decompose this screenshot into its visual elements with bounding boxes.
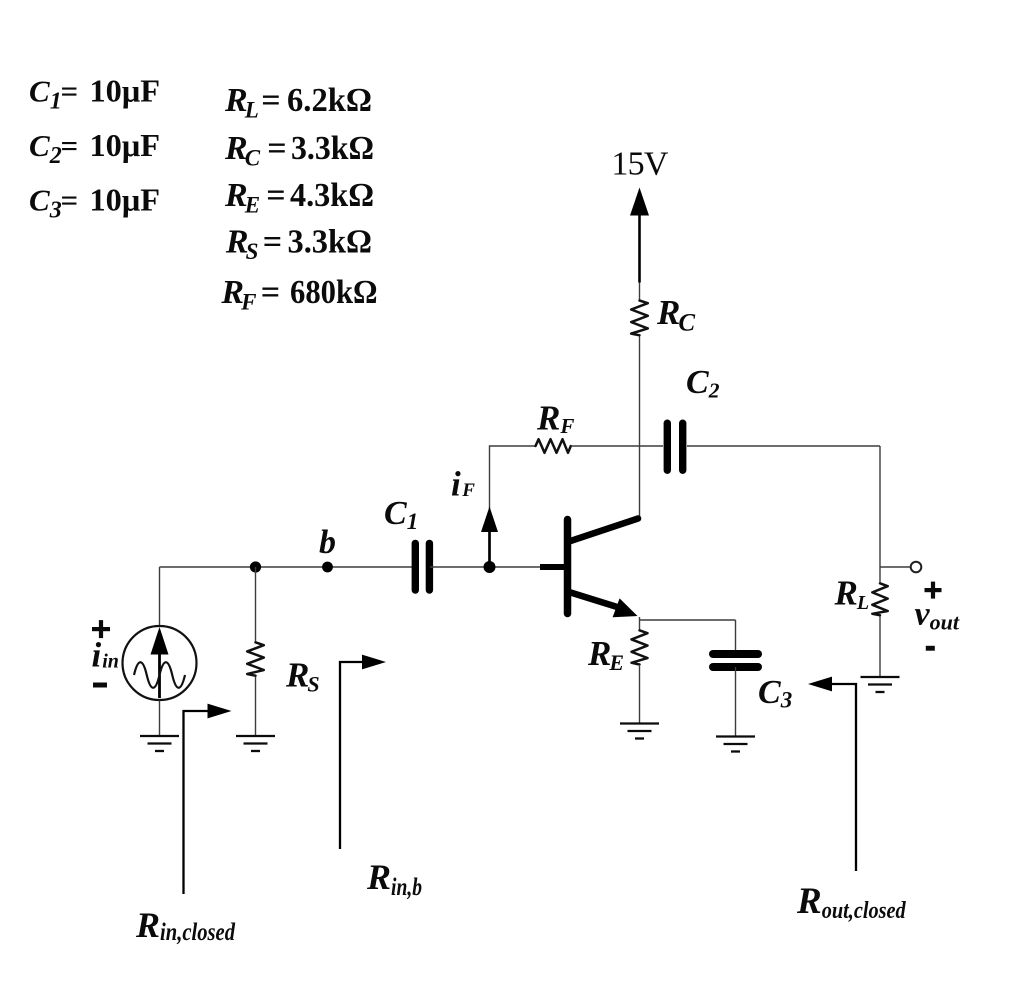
wire C1 to base — [430, 566, 540, 568]
svg-text:10μF: 10μF — [90, 74, 161, 109]
svg-text:3.3kΩ: 3.3kΩ — [288, 224, 373, 261]
ground under C3 — [716, 737, 755, 752]
svg-text:=: = — [261, 274, 280, 311]
node b — [322, 562, 333, 573]
current source iin circle — [123, 626, 197, 700]
svg-text:=: = — [61, 183, 79, 218]
resistor RL — [872, 583, 887, 615]
right output rail down — [879, 446, 881, 582]
ground under RE — [620, 724, 659, 739]
plus sign vout — [925, 588, 942, 592]
svg-text:6.2kΩ: 6.2kΩ — [287, 82, 372, 119]
transistor Q1 base bar — [564, 520, 572, 614]
wire base to current source — [159, 567, 161, 626]
svg-text:b: b — [319, 524, 336, 561]
pointer arrow Rin,closed — [184, 711, 209, 894]
svg-text:3.3kΩ: 3.3kΩ — [291, 130, 374, 167]
wire supply rail to RC — [639, 283, 641, 301]
emitter node wire down — [639, 617, 641, 629]
wire RS to ground — [255, 677, 257, 736]
svg-text:=: = — [267, 130, 286, 167]
transistor emitter lead with arrow — [569, 592, 622, 609]
minus sign iin — [93, 683, 107, 688]
output terminal — [911, 562, 922, 573]
wire RF to collector rail — [571, 445, 663, 447]
svg-text:=: = — [263, 224, 282, 261]
svg-text:680kΩ: 680kΩ — [290, 274, 378, 311]
pointer arrow Rout,closed — [832, 684, 856, 871]
output stub wire — [880, 566, 910, 568]
svg-text:=: = — [61, 128, 79, 163]
svg-text:10μF: 10μF — [90, 183, 161, 218]
wire source to ground — [159, 701, 161, 737]
base lead thick — [540, 564, 564, 570]
node at base / iF junction — [484, 561, 496, 573]
resistor RC — [631, 301, 648, 336]
wire RE to ground — [639, 666, 641, 724]
minus sign vout — [926, 646, 935, 651]
capacitor C1 — [412, 543, 419, 590]
RS branch wire — [255, 567, 257, 641]
transistor collector lead — [569, 519, 638, 542]
power supply arrow to 15V — [638, 213, 641, 283]
resistor RF — [536, 439, 571, 453]
wire C2 to right rail — [687, 445, 880, 447]
wire RL to ground — [879, 616, 881, 677]
capacitor C3 — [713, 650, 758, 658]
svg-text:=: = — [266, 177, 285, 214]
resistor RS — [247, 642, 264, 675]
svg-text:15V: 15V — [611, 146, 668, 183]
node at RS junction — [250, 561, 261, 572]
ground under RL — [861, 677, 900, 692]
wire RC to collector node — [639, 337, 641, 519]
emitter wire to C3 — [640, 619, 736, 621]
ground under RS — [236, 736, 275, 751]
capacitor C2 — [664, 423, 671, 470]
feedback wire from base node up — [490, 446, 536, 567]
pointer arrow Rin,b — [340, 662, 362, 849]
svg-text:4.3kΩ: 4.3kΩ — [290, 177, 374, 214]
ground under iin — [140, 736, 179, 751]
svg-text:=: = — [261, 82, 280, 119]
svg-text:=: = — [61, 74, 79, 109]
iF current arrow — [488, 531, 491, 565]
base wire — [160, 566, 414, 568]
current source sine — [134, 662, 185, 688]
current source arrow — [158, 652, 161, 698]
resistor RE — [632, 630, 648, 664]
svg-text:10μF: 10μF — [90, 128, 161, 163]
plus sign iin — [92, 627, 110, 631]
wire C3 to ground — [735, 667, 737, 737]
